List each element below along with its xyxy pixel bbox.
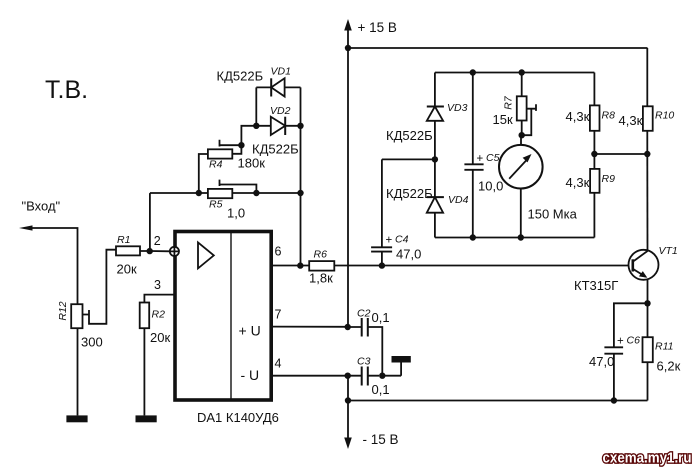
input arrow wire [19, 225, 78, 304]
resistor R12 (potentiometer 300) [71, 250, 116, 416]
diode VD3 KD522B [427, 73, 444, 160]
svg-text:15к: 15к [493, 112, 513, 127]
svg-text:C5: C5 [486, 152, 500, 164]
node R5 left junction [196, 190, 202, 196]
node emitter junction [644, 300, 650, 306]
svg-text:+: + [386, 235, 393, 247]
svg-text:20к: 20к [150, 330, 170, 345]
diode VD1 KD522B [256, 78, 300, 126]
svg-text:КТ315Г: КТ315Г [574, 278, 618, 293]
node R7 bottom junction [519, 132, 525, 138]
svg-text:C6: C6 [627, 335, 641, 347]
svg-text:R1: R1 [117, 234, 130, 246]
node R5 tap junction [253, 190, 259, 196]
svg-text:cxema.my1.ru: cxema.my1.ru [603, 450, 692, 467]
svg-text:R6: R6 [314, 249, 328, 261]
ground (C2/C3) [382, 356, 411, 376]
svg-text:VD2: VD2 [270, 105, 291, 117]
svg-text:C4: C4 [395, 233, 409, 245]
node C5 top junction [470, 69, 476, 75]
svg-text:1,0: 1,0 [227, 206, 245, 221]
transistor Q1 VT1 KT315G [629, 154, 659, 303]
power rail -15 V [344, 376, 352, 449]
node +15 junction [345, 45, 351, 51]
resistor R11 6,2k [643, 303, 653, 400]
node R4 tap junction [238, 126, 256, 149]
capacitor C3 0,1 [351, 367, 380, 386]
ground (R12) [66, 415, 87, 422]
wire R8/R9 junction to R10 [594, 153, 647, 155]
svg-text:VT1: VT1 [659, 245, 678, 257]
svg-text:VD1: VD1 [271, 66, 291, 78]
svg-text:+ 15 В: + 15 В [358, 20, 397, 35]
svg-text:+ U: + U [239, 323, 261, 339]
svg-text:R9: R9 [602, 173, 616, 185]
svg-text:R10: R10 [655, 109, 674, 121]
svg-text:1,8к: 1,8к [309, 271, 333, 286]
resistor R9 4,3k [590, 154, 599, 238]
node R8/R9 junction [591, 151, 597, 157]
ground (R2) [136, 415, 157, 422]
svg-text:4,3к: 4,3к [619, 113, 643, 128]
svg-text:2: 2 [154, 234, 161, 248]
svg-text:R5: R5 [209, 199, 223, 211]
svg-text:- 15 В: - 15 В [363, 432, 399, 447]
svg-text:10,0: 10,0 [478, 178, 503, 193]
resistor R2 20k [140, 295, 175, 416]
resistor R1 20k [116, 246, 170, 255]
diode VD4 KD522B [427, 159, 444, 237]
watermark cxema.my1.ru [603, 450, 692, 467]
node VD3/VD4 midpoint [432, 156, 438, 162]
svg-text:R11: R11 [655, 341, 673, 353]
wire bottom rail [348, 400, 648, 402]
svg-text:150 Мка: 150 Мка [528, 206, 578, 221]
svg-text:0,1: 0,1 [372, 382, 390, 397]
svg-text:3: 3 [154, 278, 161, 292]
power rail +15 V [344, 19, 647, 327]
svg-text:VD3: VD3 [447, 102, 468, 114]
wire pin 4 to -15 [273, 375, 348, 377]
node bottom rail junction [345, 397, 351, 403]
svg-text:300: 300 [81, 335, 103, 350]
capacitor C4 47,0 [371, 159, 435, 265]
inverting input circle marker [170, 247, 179, 256]
node meter bottom junction [518, 234, 524, 240]
svg-text:+: + [477, 153, 484, 165]
svg-text:6,2к: 6,2к [657, 358, 681, 373]
node pin2 junction [147, 193, 153, 254]
resistor R8 4,3k [590, 73, 600, 155]
node output junction [297, 87, 303, 268]
node pin4/C3 junction [345, 373, 351, 379]
svg-text:0,1: 0,1 [372, 310, 390, 325]
svg-text:Т.В.: Т.В. [45, 76, 88, 104]
node C2/C3 junction [379, 373, 385, 379]
node VD2 right junction [297, 123, 303, 129]
capacitor C6 47,0 [604, 303, 647, 400]
node C6 bottom junction [611, 397, 617, 403]
svg-text:КД522Б: КД522Б [252, 141, 299, 156]
svg-text:VD4: VD4 [448, 194, 469, 206]
resistor R4 (trimmer 180k) [199, 140, 242, 193]
svg-text:47,0: 47,0 [589, 354, 614, 369]
svg-text:+: + [617, 335, 624, 347]
op-amp U1 DA1 K140UD6 [175, 232, 271, 401]
svg-text:DA1 К140УД6: DA1 К140УД6 [197, 410, 279, 425]
wire pin 6 output [273, 265, 309, 267]
svg-text:7: 7 [275, 308, 282, 322]
svg-text:4: 4 [275, 357, 282, 371]
svg-text:R2: R2 [152, 309, 166, 321]
node R5 right junction [297, 190, 303, 196]
node R7 top junction [519, 69, 525, 75]
node R10 bottom junction [644, 151, 650, 157]
svg-text:C2: C2 [357, 308, 371, 320]
svg-text:R12: R12 [57, 301, 69, 320]
svg-text:20к: 20к [117, 261, 137, 276]
capacitor C2 0,1 [351, 318, 383, 376]
resistor R6 1,8k [309, 261, 632, 271]
svg-text:- U: - U [241, 367, 260, 383]
capacitor C5 10,0 [464, 73, 483, 238]
svg-text:КД522Б: КД522Б [386, 128, 433, 143]
node C4 bottom junction [379, 262, 385, 268]
svg-text:R7: R7 [503, 95, 515, 110]
svg-text:R4: R4 [209, 159, 223, 171]
svg-text:180к: 180к [238, 155, 266, 170]
wire bridge top [435, 72, 595, 74]
node VD2 left junction [253, 123, 259, 129]
svg-text:КД522Б: КД522Б [217, 69, 264, 84]
wire bridge bottom [435, 237, 595, 239]
svg-text:"Вход": "Вход" [22, 199, 61, 214]
diode VD2 KD522B [256, 117, 300, 135]
wire pin 7 to +15 [273, 326, 348, 328]
svg-text:C3: C3 [357, 356, 371, 368]
resistor R7 (trimmer 15k) [517, 73, 536, 136]
node pin7/C2 junction [345, 324, 351, 330]
meter PA 150 uA [499, 135, 543, 237]
svg-text:4,3к: 4,3к [566, 109, 590, 124]
node C5 bottom junction [470, 234, 476, 240]
svg-text:КД522Б: КД522Б [386, 186, 433, 201]
resistor R5 1,0 [150, 180, 301, 199]
svg-text:47,0: 47,0 [396, 247, 421, 262]
svg-text:6: 6 [275, 245, 282, 259]
svg-text:R8: R8 [602, 109, 616, 121]
svg-text:4,3к: 4,3к [566, 175, 590, 190]
resistor R10 4,3k [643, 48, 653, 154]
